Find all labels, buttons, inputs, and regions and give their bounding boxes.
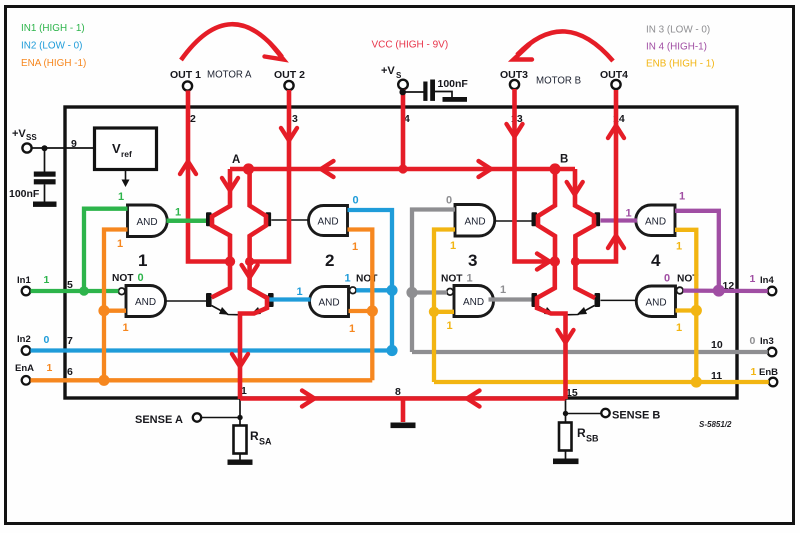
AND gate G1 lower (NOT input) <box>126 286 165 317</box>
ground (pin 8) <box>391 423 416 429</box>
svg-text:IN 4 (HIGH-1): IN 4 (HIGH-1) <box>646 42 707 53</box>
svg-text:AND: AND <box>318 216 339 227</box>
red current path (VS rail A-B) <box>188 89 616 422</box>
capacitor 100nF (VS) <box>423 82 427 101</box>
terminal SENSE B <box>601 409 609 417</box>
red junction OUT3 leg <box>550 256 560 266</box>
svg-text:100nF: 100nF <box>438 78 469 90</box>
wire to SENSE B terminal <box>566 413 602 415</box>
svg-text:R: R <box>250 429 259 443</box>
wire pin1 to sense A junction <box>239 398 241 426</box>
terminal OUT2 <box>284 81 293 90</box>
gray junction G3l input <box>406 287 417 298</box>
wire cap to ground step <box>435 92 452 99</box>
input bubble G4 lower <box>677 287 684 294</box>
terminal OUT1 <box>183 81 192 90</box>
svg-text:SENSE A: SENSE A <box>135 414 183 426</box>
junction sense A <box>237 415 242 420</box>
svg-text:1: 1 <box>500 284 506 296</box>
svg-text:R: R <box>577 426 586 440</box>
orange junction G1l <box>98 305 109 316</box>
svg-text:AND: AND <box>137 217 158 228</box>
terminal In2 <box>22 346 31 355</box>
blue junction G2l input <box>386 285 397 296</box>
red junction VS <box>398 164 407 173</box>
svg-text:1: 1 <box>676 241 682 253</box>
svg-text:OUT3: OUT3 <box>500 69 528 81</box>
emitter arrow QA2 lower <box>251 307 262 315</box>
wire RSA to ground <box>239 454 241 461</box>
svg-text:4: 4 <box>651 251 661 270</box>
svg-text:ENA (HIGH -1): ENA (HIGH -1) <box>21 58 86 69</box>
svg-text:IN1 (HIGH - 1): IN1 (HIGH - 1) <box>21 23 85 34</box>
transistor QA1 upper base bar <box>206 212 212 226</box>
svg-text:0: 0 <box>446 195 452 207</box>
svg-text:1: 1 <box>450 240 456 252</box>
svg-text:SENSE B: SENSE B <box>612 410 660 422</box>
svg-text:MOTOR A: MOTOR A <box>207 70 252 81</box>
svg-text:IN 3 (LOW - 0): IN 3 (LOW - 0) <box>646 25 710 36</box>
svg-text:NOT: NOT <box>441 274 463 285</box>
QA1 upper collector/emitter <box>212 207 231 236</box>
ground (VSS cap) <box>33 202 57 207</box>
AND gate G3 lower (NOT input) <box>454 286 494 317</box>
yellow wire EnB to G3/G4 gates <box>434 230 769 383</box>
terminal In3 <box>768 348 777 357</box>
AND gate G1 upper <box>128 205 168 237</box>
terminal EnA <box>22 376 31 385</box>
svg-text:1: 1 <box>751 366 757 378</box>
resistor RSB <box>559 423 572 451</box>
terminal OUT3 <box>510 80 519 89</box>
wire G3u output to QB1u base <box>494 220 532 222</box>
AND gate G2 lower (mirrored, NOT input) <box>310 287 349 317</box>
svg-text:+V: +V <box>381 65 395 77</box>
red junction node A <box>243 163 254 174</box>
AND gate G4 lower (mirrored, NOT input) <box>636 286 675 317</box>
junction at +VS <box>399 89 406 96</box>
transistor QA1 lower base bar <box>206 293 212 307</box>
svg-text:1: 1 <box>44 274 50 286</box>
wire G1l output to QA1l base <box>166 300 207 302</box>
red arrows on current path <box>180 124 624 407</box>
svg-text:AND: AND <box>135 297 156 308</box>
svg-text:V: V <box>112 141 121 156</box>
transistor QB2 upper base bar <box>595 212 601 226</box>
ground (VS cap) <box>443 97 468 102</box>
QB1 lower collector/emitter <box>537 288 566 315</box>
svg-text:1: 1 <box>467 273 473 285</box>
svg-text:0: 0 <box>353 195 359 207</box>
svg-text:1: 1 <box>447 320 453 332</box>
svg-text:1: 1 <box>352 241 358 253</box>
svg-text:1: 1 <box>345 273 351 285</box>
input bubble G2 lower <box>350 287 357 294</box>
svg-text:2: 2 <box>190 113 196 125</box>
transistor QA2 lower base bar <box>268 293 274 307</box>
svg-text:In3: In3 <box>760 336 774 347</box>
svg-text:6: 6 <box>67 366 73 378</box>
gray wire In3 to G3 gates <box>412 210 768 353</box>
svg-text:In2: In2 <box>17 334 31 345</box>
red junction OUT4 leg <box>571 257 580 266</box>
transistor QA2 upper base bar <box>266 212 272 226</box>
AND gate G3 upper <box>455 205 495 237</box>
wire cap to ground <box>44 184 46 202</box>
terminal SENSE A <box>193 413 201 421</box>
svg-text:0: 0 <box>44 334 50 346</box>
svg-text:A: A <box>232 154 240 166</box>
svg-text:0: 0 <box>664 273 670 285</box>
svg-text:NOT: NOT <box>356 274 378 285</box>
svg-text:AND: AND <box>646 297 667 308</box>
svg-text:VCC (HIGH - 9V): VCC (HIGH - 9V) <box>372 40 449 51</box>
svg-text:EnA: EnA <box>15 363 34 374</box>
wire pin15 to sense B junction <box>565 398 567 423</box>
red junction OUT2 leg <box>245 257 254 266</box>
green junction In1 <box>79 286 89 296</box>
ground (RSB) <box>553 459 579 465</box>
svg-text:AND: AND <box>319 297 340 308</box>
Vref block <box>95 128 157 170</box>
svg-text:1: 1 <box>349 323 355 335</box>
svg-text:NOT: NOT <box>112 273 134 284</box>
svg-text:In1: In1 <box>17 275 31 286</box>
svg-text:0: 0 <box>750 335 756 347</box>
purple junction In4 <box>713 285 725 297</box>
terminal +VSS <box>22 143 31 152</box>
AND gate G4 upper (mirrored) <box>636 205 675 236</box>
wire G2u output to QA2u base <box>271 219 309 221</box>
yellow junction G3l <box>429 307 439 317</box>
terminal +VS <box>398 80 408 90</box>
svg-text:1: 1 <box>175 207 181 219</box>
svg-text:10: 10 <box>711 339 723 351</box>
svg-text:ENB (HIGH - 1): ENB (HIGH - 1) <box>646 59 715 70</box>
QB2 lower collector/emitter <box>565 288 595 315</box>
svg-text:+V: +V <box>12 128 26 140</box>
emitter arrow QB2 lower <box>577 307 588 315</box>
svg-text:OUT 2: OUT 2 <box>274 69 305 81</box>
red motor A arc <box>181 24 282 60</box>
capacitor 100nF (VSS) <box>34 172 56 177</box>
svg-text:MOTOR B: MOTOR B <box>536 76 581 87</box>
svg-text:1: 1 <box>47 362 53 374</box>
svg-text:EnB: EnB <box>759 367 778 378</box>
svg-text:9: 9 <box>71 138 77 150</box>
QB1 upper collector/emitter <box>537 207 555 236</box>
orange junction EnA <box>98 375 109 386</box>
red motor B arc <box>517 31 613 61</box>
yellow junction G4l <box>691 305 702 316</box>
transistor QB1 upper base bar <box>532 212 538 226</box>
QB2 upper collector/emitter <box>575 207 594 236</box>
svg-text:SA: SA <box>259 437 272 447</box>
orange junction G2l <box>367 305 378 316</box>
svg-text:1: 1 <box>118 191 124 203</box>
transistor QB1 lower base bar <box>532 293 538 307</box>
input bubble G1 lower <box>118 288 125 295</box>
junction at +VSS <box>42 145 48 151</box>
orange wire EnA to G1/G2 gates <box>31 230 373 381</box>
svg-text:1: 1 <box>123 322 129 334</box>
transistor QB2 lower base bar <box>595 293 601 307</box>
terminal OUT4 <box>611 80 620 89</box>
svg-text:SS: SS <box>26 133 37 142</box>
QA2 upper collector/emitter <box>250 207 266 236</box>
green wire G1u output (over red) <box>167 219 207 223</box>
blue wire In2 to G2 gates <box>31 210 393 351</box>
wire pin 9 from +VSS to Vref <box>32 147 95 149</box>
green wire In1 to G1 gates <box>31 209 207 291</box>
terminal In4 <box>768 287 777 296</box>
svg-text:1: 1 <box>750 273 756 285</box>
svg-text:SB: SB <box>586 434 599 444</box>
QA2 lower collector/emitter <box>239 288 268 315</box>
Vref output arrow <box>125 170 127 181</box>
svg-text:1: 1 <box>676 322 682 334</box>
svg-text:0: 0 <box>138 272 144 284</box>
blue junction In2 corner <box>386 345 397 356</box>
svg-text:1: 1 <box>297 286 303 298</box>
svg-text:In4: In4 <box>760 275 774 286</box>
svg-text:1: 1 <box>626 208 632 220</box>
red junction node B <box>549 163 560 174</box>
svg-text:1: 1 <box>679 191 685 203</box>
yellow junction EnB <box>691 376 702 387</box>
svg-text:2: 2 <box>325 251 334 270</box>
IC package outline U1 <box>65 107 737 398</box>
wire +VS to cap <box>403 91 424 93</box>
resistor RSA <box>234 426 247 454</box>
svg-text:AND: AND <box>465 216 486 227</box>
svg-text:AND: AND <box>645 216 666 227</box>
svg-text:AND: AND <box>463 297 484 308</box>
terminal In1 <box>22 287 31 296</box>
input bubble G3 lower <box>447 289 454 296</box>
svg-text:3: 3 <box>292 113 298 125</box>
svg-text:B: B <box>560 154 568 166</box>
wire to SENSE A terminal <box>202 417 241 419</box>
svg-text:3: 3 <box>468 251 477 270</box>
wire to decoupling cap <box>44 148 46 172</box>
terminal EnB <box>769 378 778 387</box>
purple wire In4 to G4 gates <box>601 211 768 291</box>
QA1 lower collector/emitter <box>212 288 242 315</box>
svg-text:100nF: 100nF <box>9 188 40 200</box>
svg-text:1: 1 <box>138 251 147 270</box>
svg-text:1: 1 <box>117 238 123 250</box>
svg-text:S: S <box>396 71 402 80</box>
emitter arrow QA1 lower <box>219 307 229 315</box>
emitter arrow QB1 lower <box>544 307 554 315</box>
wire G4l output to QB2l base <box>601 299 638 301</box>
junction sense B <box>563 411 568 416</box>
svg-text:OUT 1: OUT 1 <box>170 69 201 81</box>
svg-text:OUT4: OUT4 <box>600 69 628 81</box>
AND gate G2 upper (mirrored) <box>309 206 348 236</box>
svg-text:S-5851/2: S-5851/2 <box>699 420 732 429</box>
svg-text:IN2 (LOW - 0): IN2 (LOW - 0) <box>21 41 82 52</box>
svg-text:ref: ref <box>121 149 132 159</box>
wire RSB to ground <box>565 451 567 460</box>
ground (RSA) <box>228 460 253 465</box>
svg-text:7: 7 <box>67 335 73 347</box>
red junction OUT1 leg <box>225 256 235 266</box>
